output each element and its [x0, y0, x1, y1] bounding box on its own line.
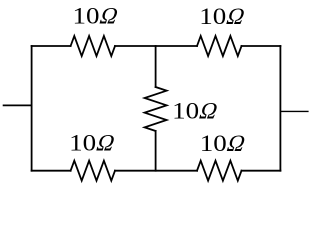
wire bottom segment middle — [115, 170, 197, 172]
resistor R4 bottom-left — [71, 161, 115, 181]
wire top segment middle — [115, 45, 197, 47]
svg-text:Ω: Ω — [98, 4, 120, 30]
right terminal lead — [280, 110, 308, 112]
svg-text:Ω: Ω — [225, 131, 247, 157]
resistor R1 top-left — [71, 36, 115, 56]
wire left vertical — [31, 46, 33, 171]
svg-text:10: 10 — [200, 131, 227, 157]
resistor R5 bottom-right — [197, 161, 242, 181]
svg-text:10: 10 — [73, 4, 100, 30]
left terminal lead — [4, 104, 32, 106]
wire right vertical — [279, 46, 281, 171]
wire top segment left — [32, 45, 71, 47]
resistor R3 middle vertical — [145, 87, 167, 131]
wire bottom segment right — [242, 170, 281, 172]
svg-text:10: 10 — [69, 131, 96, 157]
wire middle branch lower — [155, 131, 157, 171]
wire middle branch upper — [155, 46, 157, 87]
wire bottom segment left — [32, 170, 71, 172]
wire top segment right — [242, 45, 281, 47]
svg-text:10: 10 — [172, 99, 199, 125]
svg-text:Ω: Ω — [95, 131, 117, 157]
svg-text:Ω: Ω — [225, 4, 247, 30]
svg-text:10: 10 — [199, 4, 226, 30]
resistor R2 top-right — [197, 36, 242, 56]
svg-text:Ω: Ω — [198, 99, 220, 125]
